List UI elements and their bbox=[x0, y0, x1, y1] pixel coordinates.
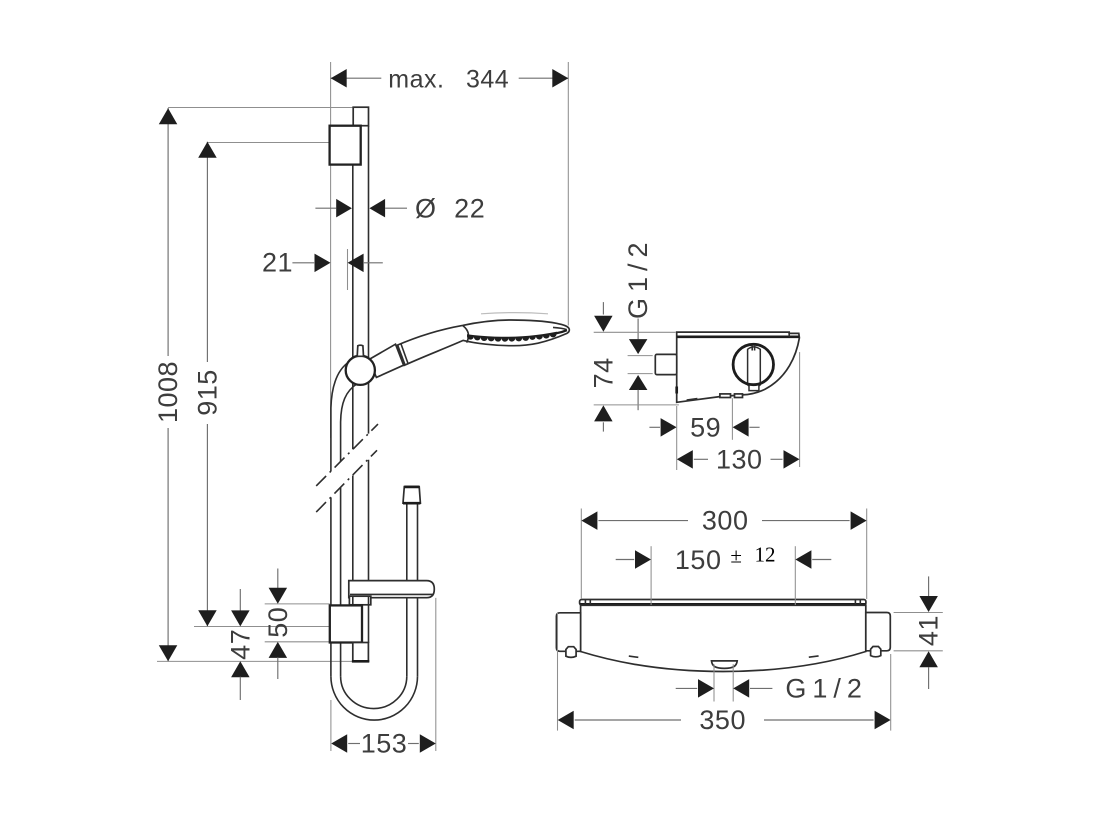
svg-text:21: 21 bbox=[262, 248, 293, 278]
upper wall bracket bbox=[330, 126, 361, 165]
svg-text:±: ± bbox=[730, 544, 742, 568]
extension line 50 bottom (bottom bracket bottom) bbox=[265, 641, 330, 643]
dimension diameter 22 bbox=[315, 194, 485, 224]
front view top plate bbox=[580, 600, 866, 606]
extension line for 21 dimension bbox=[347, 249, 349, 290]
side view inlet connector bbox=[655, 354, 676, 374]
svg-text:153: 153 bbox=[361, 728, 408, 758]
temperature knob bbox=[733, 344, 773, 390]
extension line 1008 bottom at rail end bbox=[157, 660, 368, 662]
dimension 130 bbox=[677, 352, 800, 474]
dimension 300 bbox=[581, 506, 866, 599]
dimension 915 bbox=[192, 142, 222, 627]
svg-text:50: 50 bbox=[263, 607, 293, 638]
svg-text:74: 74 bbox=[588, 357, 618, 388]
slider pin bbox=[357, 345, 363, 356]
dimension 50 bbox=[263, 569, 293, 680]
side view bottom edge details bbox=[677, 387, 743, 401]
lower wall bracket bbox=[330, 605, 362, 642]
extension line 915 bottom bbox=[194, 626, 330, 628]
wall bar rail bbox=[353, 126, 369, 644]
dimension G1/2 front bbox=[676, 664, 868, 703]
dimension 59 bbox=[649, 398, 759, 442]
extension line 50 top (bottom bracket top) bbox=[265, 603, 330, 605]
svg-text:41: 41 bbox=[914, 615, 944, 646]
svg-text:1008: 1008 bbox=[153, 361, 183, 423]
dimension 74 bbox=[588, 302, 679, 432]
dimension max. 344 bbox=[331, 65, 569, 93]
svg-text:300: 300 bbox=[702, 506, 749, 536]
dimension 21 bbox=[262, 248, 383, 278]
svg-text:12: 12 bbox=[755, 543, 776, 567]
outlet spout bbox=[712, 661, 738, 669]
extension line 153 right (soap dish end) bbox=[435, 598, 437, 751]
extension line for max 344 left (wall bracket) bbox=[330, 62, 332, 438]
break mark diagonals bbox=[316, 424, 378, 512]
svg-text:G1/2: G1/2 bbox=[623, 236, 653, 319]
svg-text:130: 130 bbox=[716, 444, 763, 474]
svg-text:59: 59 bbox=[690, 413, 721, 443]
right connector screw bbox=[871, 647, 881, 657]
soap dish collar bbox=[349, 596, 370, 605]
dimension 350 bbox=[558, 613, 891, 735]
extension line 915 top at wall bracket bbox=[207, 142, 329, 144]
left union connector bbox=[556, 613, 580, 652]
svg-text:G1/2: G1/2 bbox=[785, 674, 868, 704]
rail top cap bbox=[353, 107, 368, 126]
extension line for max 344 right (shower head tip) bbox=[567, 62, 569, 326]
slider ring knob bbox=[346, 356, 375, 385]
svg-text:47: 47 bbox=[225, 629, 255, 660]
shower hose bbox=[331, 362, 418, 721]
right union connector bbox=[866, 613, 891, 651]
front view bottom edge ticks bbox=[629, 656, 819, 657]
svg-text:max.: max. bbox=[388, 65, 444, 93]
left connector screw bbox=[566, 647, 576, 658]
svg-text:344: 344 bbox=[466, 65, 509, 93]
extension line 1008 top at rail top bbox=[168, 107, 353, 109]
hose conical nut bbox=[403, 487, 420, 504]
svg-text:Ø: Ø bbox=[415, 194, 437, 224]
spray face nozzles bbox=[467, 332, 557, 342]
svg-text:915: 915 bbox=[192, 369, 222, 416]
svg-text:22: 22 bbox=[454, 194, 485, 224]
svg-text:350: 350 bbox=[699, 705, 746, 735]
dimension 41 bbox=[894, 576, 944, 689]
svg-text:150: 150 bbox=[675, 545, 722, 575]
dimension 47 bbox=[225, 589, 255, 700]
dimension 1008 bbox=[153, 108, 183, 661]
dimension 153 bbox=[331, 700, 436, 758]
hand shower (handle and head) bbox=[397, 313, 570, 366]
soap dish bbox=[349, 581, 435, 598]
dimension 150 plus minus 12 bbox=[616, 543, 832, 606]
front view body bbox=[581, 605, 866, 671]
rail bottom end bbox=[352, 643, 369, 662]
slider holder arm bbox=[369, 344, 404, 377]
dimension G1/2 side bbox=[623, 236, 653, 410]
thermostat side view body bbox=[677, 332, 800, 402]
